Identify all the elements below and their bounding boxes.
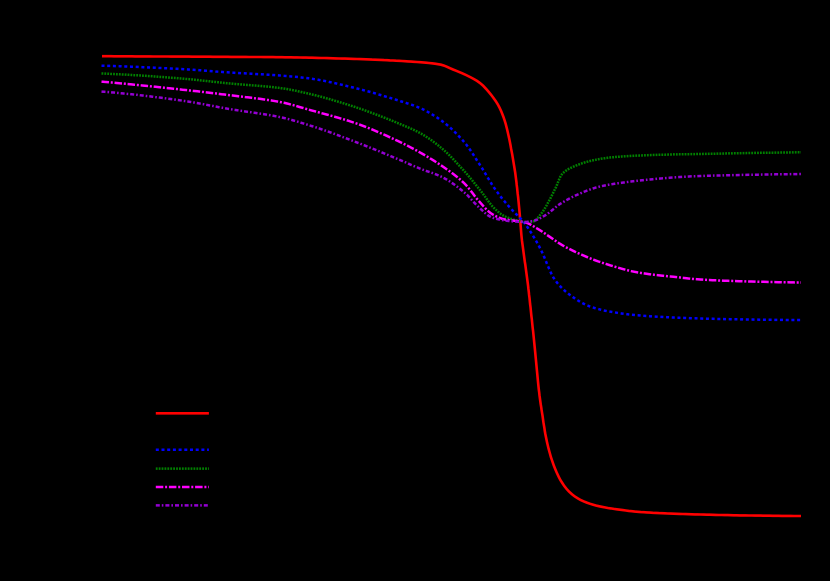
- curve magenta dash-dot: [102, 82, 802, 283]
- legend purple dash-dot: [156, 504, 209, 507]
- legend red solid: [156, 412, 209, 415]
- curve green dotted: [102, 74, 802, 223]
- legend green dotted: [156, 467, 209, 470]
- legend magenta dash-dot: [156, 486, 209, 489]
- curve blue dashed: [102, 66, 802, 320]
- curve red solid: [102, 56, 801, 516]
- legend blue dashed: [156, 449, 209, 452]
- curve purple dash-dot: [102, 92, 802, 222]
